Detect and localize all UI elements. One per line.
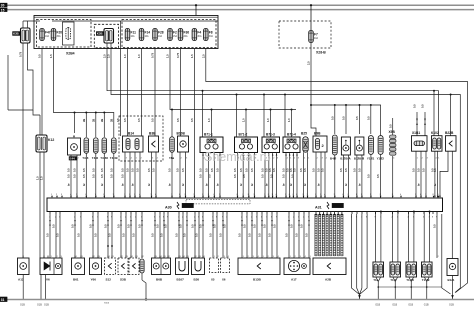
unit B13B box: [238, 258, 280, 275]
unit A2B box: [313, 258, 346, 275]
sensor B12B-A pin line: [345, 141, 347, 146]
svg-text:3: 3: [427, 158, 428, 160]
svg-text:0.5: 0.5: [272, 168, 276, 172]
relay K102 pill 1: [433, 138, 437, 149]
node ground link 395.25: [394, 286, 396, 288]
node T10B ground: [145, 298, 147, 300]
svg-text:B121: B121: [448, 278, 455, 282]
wire K12 down B: [43, 152, 45, 258]
ECU internal dashed box: [186, 199, 250, 204]
shielded wire 1: [315, 214, 317, 256]
svg-text:0.5: 0.5: [244, 168, 248, 172]
diode V6 box: [40, 258, 62, 275]
wire K102 pin1: [434, 151, 436, 196]
svg-text:0.5: 0.5: [312, 168, 316, 172]
ECU top pin 11: [129, 196, 131, 198]
svg-text:F8: F8: [209, 31, 213, 35]
ECU top pin 49: [400, 196, 402, 198]
ECU top pin 21: [208, 196, 210, 198]
svg-text:2: 2: [141, 158, 142, 160]
switch B22B symbol: [449, 141, 452, 147]
svg-text:0.5: 0.5: [317, 168, 321, 172]
wire coil4 left feed: [284, 95, 286, 138]
ECU top pin 31: [276, 196, 278, 198]
ECU top pin 54: [438, 196, 440, 198]
svg-text:0.5: 0.5: [293, 168, 297, 172]
node coil1 left feed: [202, 90, 204, 92]
ECU top pin 15: [155, 196, 157, 198]
inline connector at 50: [49, 220, 51, 222]
ignition coil B71-2: [235, 137, 258, 153]
wire B71-2 pin2: [242, 153, 244, 199]
wire bus to fusebox top: [195, 5, 197, 15]
ECU top pin 22: [213, 196, 215, 198]
svg-text:0.5: 0.5: [156, 224, 160, 228]
ECU top pin 38: [315, 196, 317, 198]
ECU bottom pin 1: [49, 212, 51, 215]
wire T3-46 down: [103, 153, 105, 198]
wire B71-1 pin3: [213, 153, 215, 199]
svg-text:0.5: 0.5: [273, 224, 277, 228]
pin arrow B71-2 3: [248, 154, 250, 156]
svg-text:1.0: 1.0: [207, 118, 211, 122]
wire T3-49 down: [113, 153, 115, 198]
svg-text:40A: 40A: [314, 37, 319, 40]
ground link line: [378, 286, 442, 288]
ECU top pin 43: [348, 196, 350, 198]
wire B71-3 pin4: [276, 153, 278, 199]
svg-text:15A: 15A: [173, 35, 178, 38]
sensor B121 symbol: [449, 263, 455, 269]
ECU bottom pin 63: [436, 212, 438, 215]
pin tick bottom comp 164: [163, 256, 165, 259]
wire V6 ground a: [40, 275, 42, 300]
ECU bottom pin 20: [182, 212, 184, 215]
fuse F2: [168, 29, 178, 41]
svg-text:0.5: 0.5: [147, 168, 151, 172]
connector T1a pill b: [379, 264, 383, 275]
ECU bottom pin 26: [216, 212, 218, 215]
wire X9B down: [392, 156, 394, 198]
svg-text:0.5: 0.5: [330, 116, 334, 120]
ECU bottom pin 16: [159, 212, 161, 215]
svg-text:0.5: 0.5: [421, 104, 425, 108]
coil X9B symbol: [390, 135, 397, 155]
wire K12 down A: [39, 152, 41, 258]
svg-text:0.5: 0.5: [183, 233, 187, 237]
wire T1 feed 429.5: [429, 212, 431, 263]
svg-text:0.5: 0.5: [127, 224, 131, 228]
relay K102 pill 2: [437, 138, 441, 149]
svg-text:B71-4: B71-4: [287, 133, 296, 137]
connector T1-40 pill a: [407, 264, 411, 275]
switch S12 symbol: [108, 263, 111, 269]
switch B3B symbol: [152, 141, 156, 147]
wire B14 pin3: [134, 152, 136, 198]
node coil2 left feed: [236, 94, 238, 96]
svg-text:0.5: 0.5: [138, 224, 142, 228]
svg-text:4: 4: [131, 158, 132, 160]
ECU bottom pin 2: [55, 212, 57, 215]
sensor B44 top arrow: [73, 136, 75, 138]
shielded wire node 1: [315, 214, 317, 216]
pin arrow B71-1 2: [208, 154, 210, 156]
svg-text:0.5: 0.5: [67, 168, 71, 172]
wire X5 pin b: [216, 214, 218, 258]
shielded wire node 8: [341, 214, 343, 216]
pin tick bottom comp 179: [178, 256, 180, 259]
wire feed B12B-B: [359, 105, 361, 134]
valve Y66 box: [90, 258, 102, 275]
svg-text:0.5: 0.5: [253, 224, 257, 228]
connector T1-49 pill b: [427, 264, 431, 275]
svg-text:0.5: 0.5: [56, 233, 60, 237]
svg-text:3: 3: [277, 158, 278, 160]
node T3 feed 2: [95, 112, 97, 114]
wire feed Y1B1: [370, 105, 372, 134]
svg-text:0.5: 0.5: [122, 233, 126, 237]
svg-text:1.5: 1.5: [166, 54, 170, 58]
ECU top pin 46: [370, 196, 372, 198]
pin tick bottom comp 199: [198, 256, 200, 259]
ECU top pin 23: [219, 196, 221, 198]
diode V6 symbol: [44, 262, 50, 270]
label 31: [0, 297, 7, 302]
wire T1-40 bottom join: [409, 277, 414, 282]
svg-text:0.5: 0.5: [160, 233, 164, 237]
svg-text:F4: F4: [197, 31, 201, 35]
inline connector at 142: [141, 220, 143, 222]
wire B6B pin b: [159, 214, 161, 258]
svg-text:1.0: 1.0: [137, 54, 141, 58]
wire B121 down: [452, 276, 454, 295]
svg-text:0.5: 0.5: [131, 168, 135, 172]
sensor B12B-B symbol: [356, 145, 362, 151]
svg-text:V6: V6: [46, 278, 50, 282]
wire B71-4 pin3: [292, 153, 294, 199]
sensor B12B-B pin line: [358, 141, 360, 146]
diode V6 divider: [53, 258, 55, 275]
ECU top pin 5: [76, 196, 78, 198]
svg-text:0.5: 0.5: [209, 233, 213, 237]
connector T3-49: [112, 138, 117, 154]
switch S12 dashed box: [105, 258, 116, 275]
fuse F28: [153, 29, 164, 41]
svg-text:10A: 10A: [145, 35, 150, 38]
ECU bottom pin 24: [202, 212, 204, 215]
ECU bottom pin 44: [322, 212, 324, 215]
wire T3-4 drop: [85, 113, 87, 138]
ECU top pin 34: [293, 196, 295, 198]
wire A17 pin 1: [288, 214, 290, 258]
pin arrow B71-3 1: [264, 154, 266, 156]
wire B3B pin2: [155, 152, 157, 198]
svg-text:0.5: 0.5: [413, 104, 417, 108]
svg-text:0.5: 0.5: [243, 224, 247, 228]
wire B71-2 pin3: [248, 153, 250, 199]
wire B71-1 pin1: [202, 153, 204, 199]
wire far-left vertical: [7, 55, 9, 110]
pin arrow B71-4 4: [296, 154, 298, 156]
fuse F8: [204, 29, 214, 41]
svg-text:1: 1: [173, 158, 174, 160]
ECU top pin 36: [303, 196, 305, 198]
bus 30 (top supply rail): [0, 4, 474, 6]
ECU top pin 42: [343, 196, 345, 198]
label K3B2 black tag: [96, 32, 104, 36]
ECU bottom pin 34: [266, 212, 268, 215]
svg-text:0.5: 0.5: [89, 224, 93, 228]
node on bus at x=311: [310, 4, 312, 6]
relay K3B second: [104, 29, 114, 44]
wire S12 pin b: [111, 214, 113, 258]
fuse F7: [309, 31, 319, 43]
inline connector at 195: [194, 220, 196, 222]
svg-text:20A: 20A: [184, 35, 189, 38]
valve Y66 symbol: [92, 263, 98, 269]
svg-text:1: 1: [105, 158, 106, 160]
wire funnel to ground: [359, 295, 361, 300]
svg-text:0.5: 0.5: [261, 174, 265, 178]
wire feed coil B71-2: [245, 110, 247, 138]
wire B6B pin c: [163, 214, 165, 258]
wire B71-1 pin4: [219, 153, 221, 199]
pin tick bottom comp 23.2: [22, 256, 24, 259]
ECU bottom pin 39: [298, 212, 300, 215]
wire coil2 left feed: [236, 95, 238, 138]
svg-text:30A: 30A: [209, 35, 214, 38]
inline connector at 223: [222, 220, 224, 222]
ECU top pin 4: [70, 196, 72, 198]
pin tick bottom comp 203: [202, 256, 204, 259]
wire fuse F4 drop: [193, 49, 195, 199]
wire T3-8 down: [95, 153, 97, 198]
svg-text:2: 2: [181, 158, 182, 160]
ECU top pin 8: [103, 196, 105, 198]
ECU bottom pin 6: [92, 212, 94, 215]
dashed box X28-B: [279, 21, 331, 48]
inline connector at 75: [74, 220, 76, 222]
wire T1 feed 380.9: [380, 212, 382, 263]
svg-text:3: 3: [298, 158, 299, 160]
sensor B12B-A box: [341, 137, 350, 155]
wire B10B pin1: [179, 152, 181, 198]
svg-text:0.5: 0.5: [344, 168, 348, 172]
wire ECU ground 367.1: [360, 214, 368, 295]
ECU bottom pin 48: [337, 212, 339, 215]
wire B9B pin 316: [315, 152, 317, 198]
svg-text:0.75: 0.75: [19, 51, 23, 57]
wire B13B pin 4: [256, 214, 258, 258]
svg-text:0.5: 0.5: [282, 174, 286, 178]
svg-text:10A: 10A: [131, 35, 136, 38]
ECU top pin 51: [420, 196, 422, 198]
wire V6 ground b: [45, 275, 47, 300]
sensor B6B box: [152, 258, 171, 275]
node at 108: [107, 245, 109, 247]
svg-text:0.5: 0.5: [388, 124, 392, 128]
svg-text:K102: K102: [431, 131, 439, 135]
svg-text:0.5: 0.5: [219, 233, 223, 237]
fuse F4: [192, 29, 202, 41]
wire fuse F20 down: [54, 49, 114, 138]
ECU top pin 27: [254, 196, 256, 198]
wire ECU ground 361.9: [360, 214, 362, 295]
fusebox inner bus line: [52, 20, 218, 22]
svg-text:X9B: X9B: [389, 130, 396, 134]
wire ECU right b: [442, 214, 451, 294]
ECU top pin 35: [296, 196, 298, 198]
svg-text:S12: S12: [106, 278, 112, 282]
ECU bottom pin 29: [241, 212, 243, 215]
pin arrow B71-4 3: [293, 154, 295, 156]
svg-text:3: 3: [322, 158, 323, 160]
inline connector at 242: [241, 220, 243, 222]
svg-text:br: br: [289, 183, 293, 186]
ECU bottom pin 5: [80, 212, 82, 215]
shielded wire 3: [322, 214, 324, 256]
pin tick bottom comp 44: [43, 256, 45, 259]
ECU top pin 29: [268, 196, 270, 198]
wire into K12 top: [39, 115, 41, 135]
connector B4B pill: [332, 135, 337, 155]
shielded wire node 2: [319, 214, 321, 216]
svg-text:0.5: 0.5: [208, 174, 212, 178]
svg-text:1.0: 1.0: [287, 118, 291, 122]
pin arrow B71-1 1: [202, 154, 204, 156]
wire feed coil B71-3: [270, 110, 272, 138]
svg-text:0.5: 0.5: [300, 224, 304, 228]
wire feed B12B-A: [345, 105, 347, 134]
node coil4 left feed: [284, 94, 286, 96]
ECU bottom pin 59: [413, 212, 415, 215]
svg-text:3: 3: [87, 158, 88, 160]
wire B12B-A pin1: [342, 155, 344, 198]
svg-text:0.5: 0.5: [104, 224, 108, 228]
svg-text:2: 2: [438, 256, 439, 258]
wire Y66 pin a: [92, 214, 94, 258]
svg-text:0.5: 0.5: [285, 233, 289, 237]
shielded wire 8: [341, 214, 343, 256]
connector T1a box: [373, 262, 384, 277]
ECU bottom pin 62: [432, 212, 434, 215]
svg-text:X28-B: X28-B: [316, 51, 326, 55]
node feed B4B: [334, 104, 336, 106]
svg-text:30: 30: [1, 4, 5, 8]
svg-text:0.5: 0.5: [67, 174, 71, 178]
ECU bottom pin 52: [361, 212, 363, 215]
svg-text:br: br: [67, 183, 71, 186]
svg-text:A17: A17: [291, 278, 297, 282]
fuse F47: [40, 29, 51, 41]
svg-text:br: br: [358, 183, 362, 186]
wire B167 pin a: [178, 214, 180, 258]
sub box around spare fuse: [63, 22, 75, 45]
ECU bottom pin 49: [341, 212, 343, 215]
svg-text:0.5: 0.5: [121, 174, 125, 178]
svg-text:2B: 2B: [82, 119, 86, 122]
wire B167 pin b: [182, 214, 184, 258]
ECU top pin 1: [51, 196, 53, 198]
ECU symbol 1: [177, 202, 179, 209]
ECU bottom pin 25: [212, 212, 214, 215]
svg-text:0.5: 0.5: [175, 233, 179, 237]
wire T1 feed 408.6: [408, 212, 410, 263]
svg-text:0.5: 0.5: [73, 168, 77, 172]
pin tick bottom comp 108: [107, 256, 109, 259]
wire B10B pin2: [185, 152, 187, 198]
switch B22B box: [446, 136, 457, 152]
svg-text:1.5: 1.5: [40, 176, 44, 180]
svg-text:2: 2: [273, 158, 274, 160]
svg-text:B167: B167: [177, 278, 185, 282]
fusebox dashed enclosure right: [122, 20, 216, 48]
wire A17 pin 2: [293, 214, 295, 258]
svg-text:2B: 2B: [109, 119, 113, 122]
ECU top pin 10: [124, 196, 126, 198]
pin tick bottom comp 168: [167, 256, 169, 259]
wire B13B pin 8: [276, 214, 278, 258]
shielded wire 7: [337, 214, 339, 256]
svg-text:br: br: [264, 183, 268, 186]
svg-text:0.5: 0.5: [233, 168, 237, 172]
svg-text:0.5: 0.5: [295, 233, 299, 237]
node ground link 378.25: [377, 286, 379, 288]
svg-text:4: 4: [326, 158, 327, 160]
svg-text:0.5: 0.5: [123, 118, 127, 122]
ECU bottom pin 23: [198, 212, 200, 215]
svg-text:0.5: 0.5: [367, 174, 371, 178]
svg-text:X6: X6: [222, 278, 226, 282]
svg-text:3: 3: [381, 158, 382, 160]
wire B4B down: [334, 155, 336, 198]
svg-text:0.5: 0.5: [181, 168, 185, 172]
unit B14 box: [123, 136, 144, 152]
wire feed coil B71-4: [291, 110, 293, 138]
wire B121 ground: [452, 295, 454, 300]
wire Y1B2 down: [380, 155, 382, 199]
pin arrow B71-4 2: [289, 154, 291, 156]
ECU bottom pin 42: [315, 212, 317, 215]
wire T3-4 down: [85, 153, 87, 198]
ground bus 31: [0, 299, 474, 301]
svg-text:br: br: [168, 183, 172, 186]
node on bus at x=196: [195, 4, 197, 6]
ECU top pin 14: [151, 196, 153, 198]
shielded wire 6: [333, 214, 335, 256]
lambda B167 symbol: [179, 261, 185, 271]
ECU bottom pin 31: [251, 212, 253, 215]
svg-text:0.5: 0.5: [216, 168, 220, 172]
wire feed coil B71-1: [211, 110, 213, 138]
pin tick bottom comp 160: [159, 256, 161, 259]
svg-text:F28: F28: [158, 31, 164, 35]
svg-text:0.5: 0.5: [195, 233, 199, 237]
svg-text:3: 3: [349, 158, 350, 160]
fuse F11: [125, 29, 136, 41]
svg-text:0.5: 0.5: [268, 168, 272, 172]
svg-text:0.5: 0.5: [282, 168, 286, 172]
label B44 tag: [69, 157, 77, 161]
node T3 feed 1: [85, 112, 87, 114]
wire Y1B1 down: [370, 155, 372, 199]
svg-text:0.5: 0.5: [109, 168, 113, 172]
connector T1-2 box: [390, 262, 401, 277]
connector T1-2 pill b: [396, 264, 400, 275]
wire fuse F28 drop: [154, 49, 156, 137]
wire S3B pin a: [120, 214, 122, 258]
svg-text:4: 4: [157, 158, 158, 160]
